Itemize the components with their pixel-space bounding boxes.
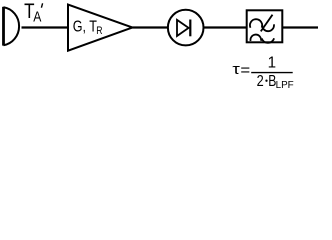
LPF box — [247, 10, 283, 42]
svg-text:G, T: G, T — [73, 18, 97, 36]
detector circle — [168, 10, 204, 46]
svg-text:2: 2 — [257, 73, 264, 90]
formula tau = 1/(2*B_LPF) — [232, 54, 293, 91]
prime tick on TA — [41, 3, 42, 7]
svg-text:τ: τ — [232, 61, 240, 78]
output wire — [283, 26, 319, 28]
LPF lower sine wave — [250, 35, 261, 41]
svg-text:=: = — [240, 63, 250, 79]
wire detector to LPF — [204, 26, 246, 28]
label TA' antenna temperature — [24, 1, 41, 25]
LPF slash — [261, 15, 273, 32]
antenna — [4, 7, 20, 46]
label G, TR — [73, 18, 103, 37]
diode bar — [189, 20, 191, 37]
svg-text:A: A — [33, 9, 41, 25]
svg-text:LPF: LPF — [276, 80, 294, 90]
diode triangle — [177, 20, 189, 36]
LPF upper sine wave — [250, 19, 262, 28]
svg-text:R: R — [96, 25, 102, 37]
wire antenna to amplifier — [22, 26, 69, 28]
svg-text:1: 1 — [268, 54, 276, 71]
wire amplifier to detector — [133, 26, 168, 28]
amplifier G,TR — [68, 5, 133, 51]
